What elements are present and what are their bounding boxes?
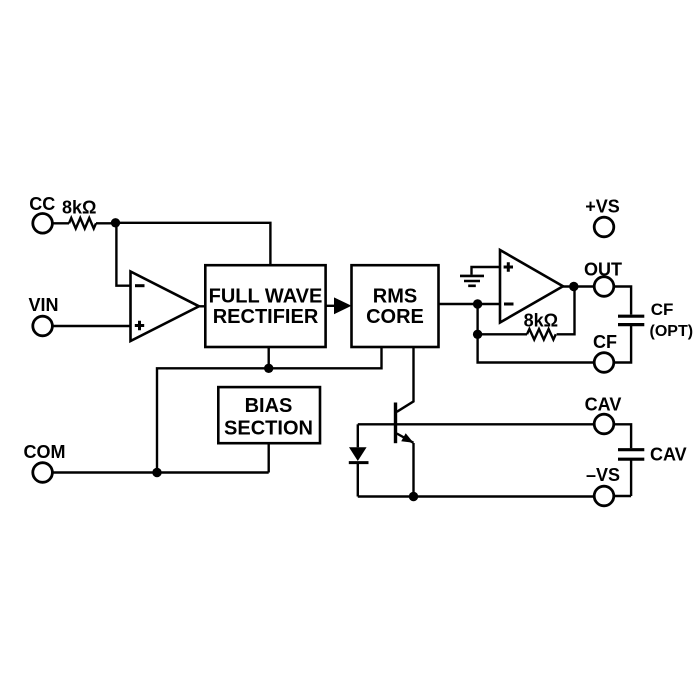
node F junction on COM rail (152, 468, 161, 477)
terminal -VS (594, 486, 614, 506)
transistor Q1 collector wire from RMS core (397, 347, 414, 412)
node D junction (264, 364, 273, 373)
svg-text:–VS: –VS (586, 465, 620, 485)
capacitor CAV (618, 450, 644, 460)
U1 plus sign (135, 321, 144, 330)
op-amp U2 output amplifier (500, 250, 563, 323)
svg-text:CORE: CORE (366, 306, 424, 328)
U2 minus sign (504, 303, 514, 306)
svg-text:+VS: +VS (585, 197, 620, 217)
diode D1 anode wire (357, 424, 359, 447)
wire rectifier bottom to node D (268, 347, 270, 368)
terminal +VS (594, 217, 614, 237)
node C junction (473, 330, 482, 339)
label FULL WAVE RECTIFIER (209, 286, 323, 329)
resistor 8k input (69, 218, 96, 229)
svg-text:RMS: RMS (373, 286, 417, 308)
label RMS CORE (366, 286, 424, 329)
terminal CC (33, 214, 53, 234)
wire RMS core output to U2 inverting input (439, 303, 501, 305)
svg-text:SECTION: SECTION (224, 418, 313, 440)
capacitor CF (OPT) (618, 316, 644, 324)
wire OUT to capacitor CF (614, 287, 631, 315)
resistor 8k feedback (527, 329, 556, 340)
ground (460, 276, 484, 286)
transistor Q1 base bar (394, 403, 397, 444)
wire capacitor CAV to -VS wire (630, 461, 632, 497)
wire node A to op-amp inverting input (116, 223, 130, 286)
svg-text:CC: CC (29, 194, 55, 214)
wire node D to RMS core bottom (269, 347, 382, 368)
wire U2 output to OUT (563, 285, 594, 287)
svg-text:CAV: CAV (585, 395, 622, 415)
svg-text:BIAS: BIAS (245, 395, 293, 417)
svg-text:8kΩ: 8kΩ (524, 311, 558, 331)
terminal OUT (594, 277, 614, 297)
node B junction (473, 299, 482, 308)
svg-text:FULL WAVE: FULL WAVE (209, 286, 323, 308)
wire COM rail (52, 471, 268, 473)
diode D1 (349, 447, 367, 461)
transistor Q1 emitter (397, 434, 414, 443)
svg-text:CF: CF (651, 300, 674, 319)
wire feedback from node B down and to CF terminal (478, 304, 595, 363)
svg-text:CAV: CAV (650, 445, 687, 465)
terminal COM (33, 463, 53, 483)
svg-text:(OPT): (OPT) (650, 323, 694, 340)
svg-text:8kΩ: 8kΩ (62, 198, 96, 218)
wire Q1 emitter to node E (412, 443, 414, 497)
U2 plus sign (504, 262, 513, 271)
wire node A to rectifier top (116, 223, 271, 265)
svg-text:COM: COM (24, 442, 66, 462)
arrow rectifier to RMS core (326, 305, 334, 307)
node E junction emitter (409, 492, 418, 501)
block RMS CORE (352, 265, 439, 347)
wire resistor to node A (96, 222, 116, 224)
terminal CF (594, 353, 614, 373)
node A junction (111, 218, 120, 227)
wire BIAS section to COM rail (268, 443, 270, 472)
terminal CAV (594, 414, 614, 434)
block BIAS SECTION (218, 387, 320, 443)
terminal VIN (33, 316, 53, 336)
wire CC to resistor (52, 222, 69, 224)
wire U2 non-inverting input to ground (472, 267, 501, 275)
wire capacitor CF to CF terminal wire (614, 326, 631, 363)
U1 minus sign (135, 284, 145, 287)
label BIAS SECTION (224, 395, 313, 440)
node OUT junction (569, 282, 578, 291)
svg-text:VIN: VIN (28, 295, 58, 315)
wire feedback resistor to U2 output (557, 287, 575, 335)
svg-text:RECTIFIER: RECTIFIER (213, 306, 319, 328)
wire node D to COM rail (157, 368, 269, 472)
wire CAV to transistor base and diode (358, 423, 594, 425)
wire VIN to op-amp non-inverting input (52, 325, 130, 327)
wire -VS to capacitor (614, 495, 631, 497)
wire CAV to capacitor CAV (614, 424, 631, 448)
svg-text:OUT: OUT (584, 260, 622, 280)
svg-text:CF: CF (593, 332, 617, 352)
op-amp U1 input amplifier (131, 272, 200, 342)
wire node C to feedback resistor (478, 333, 527, 335)
label CF (OPT) (650, 300, 694, 340)
wire U1 output to rectifier (199, 305, 205, 307)
wire -VS to diode and emitter (358, 495, 594, 497)
wire diode D1 cathode to -VS wire (357, 463, 359, 497)
block FULL WAVE RECTIFIER (205, 265, 325, 347)
